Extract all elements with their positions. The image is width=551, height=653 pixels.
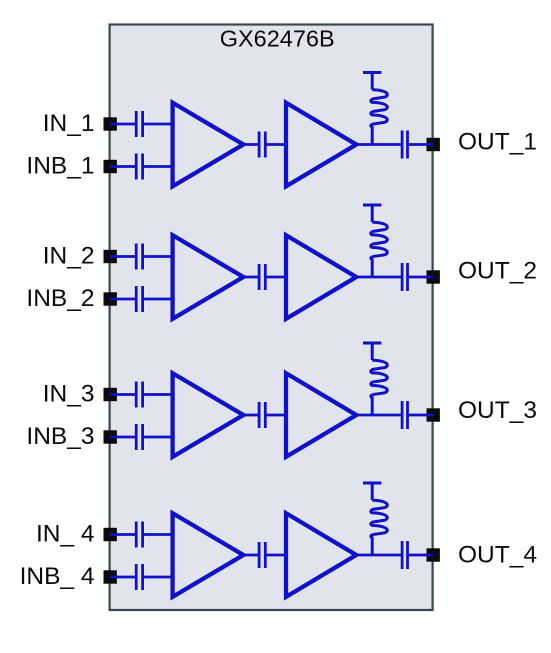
wire capacitor to amplifier A1a input + bbox=[143, 123, 175, 126]
label pin IN_2 bbox=[43, 243, 95, 270]
supply terminal (channel 4 choke feed) bbox=[363, 483, 381, 500]
inductor L2 (RF choke) bbox=[371, 222, 388, 277]
amplifier A2b (second stage) bbox=[286, 235, 356, 319]
wire interstage capacitor to amplifier A1b bbox=[265, 143, 288, 146]
capacitor interstage coupling (channel 1) bbox=[259, 132, 265, 158]
wire output capacitor to OUT_2 pad bbox=[408, 276, 434, 279]
capacitor input coupling (IN_1) bbox=[136, 111, 142, 137]
inductor L1 (RF choke) bbox=[371, 90, 388, 145]
label pin OUT_4 bbox=[458, 541, 537, 568]
wire amplifier A2a output to interstage capacitor bbox=[242, 276, 259, 279]
svg-text:OUT_2: OUT_2 bbox=[458, 257, 537, 284]
pin pad INB_2 bbox=[104, 292, 117, 305]
wire capacitor to amplifier A4a input + bbox=[143, 533, 175, 536]
wire output capacitor to OUT_4 pad bbox=[408, 554, 434, 557]
capacitor input coupling (INB_1) bbox=[136, 154, 142, 180]
pin pad OUT_2 bbox=[427, 270, 440, 283]
amplifier A3b (second stage) bbox=[286, 373, 356, 457]
svg-text:OUT_1: OUT_1 bbox=[458, 129, 537, 156]
label pin OUT_3 bbox=[458, 397, 537, 424]
capacitor interstage coupling (channel 4) bbox=[259, 542, 265, 568]
wire output capacitor to OUT_3 pad bbox=[408, 414, 434, 417]
amplifier A1b (second stage) bbox=[286, 103, 356, 187]
wire amplifier A1a output to interstage capacitor bbox=[242, 143, 259, 146]
capacitor output coupling (OUT_2) bbox=[402, 263, 407, 291]
capacitor input coupling (IN_2) bbox=[136, 244, 142, 270]
wire INB_4 pad to coupling capacitor bbox=[110, 576, 136, 579]
wire IN_1 pad to coupling capacitor bbox=[110, 123, 136, 126]
capacitor output coupling (OUT_3) bbox=[402, 401, 407, 429]
wire capacitor to amplifier A3a input + bbox=[143, 393, 175, 396]
wire interstage capacitor to amplifier A3b bbox=[265, 414, 288, 417]
label pin OUT_2 bbox=[458, 257, 537, 284]
pin pad INB_4 bbox=[104, 570, 117, 583]
wire amplifier A2b output to output capacitor (node with choke) bbox=[355, 276, 402, 279]
svg-text:IN_2: IN_2 bbox=[43, 243, 95, 270]
label pin IN_4 bbox=[36, 521, 95, 548]
label part number GX62476B bbox=[220, 26, 335, 52]
label pin INB_3 bbox=[26, 423, 94, 450]
wire INB_2 pad to coupling capacitor bbox=[110, 298, 136, 301]
capacitor input coupling (IN_4) bbox=[136, 522, 142, 548]
wire amplifier A3a output to interstage capacitor bbox=[242, 414, 259, 417]
amplifier A2a (first stage) bbox=[173, 235, 244, 319]
wire capacitor to amplifier A3a input - bbox=[143, 436, 175, 439]
amplifier A4b (second stage) bbox=[286, 513, 356, 597]
wire amplifier A1b output to output capacitor (node with choke) bbox=[355, 143, 402, 146]
wire amplifier A4b output to output capacitor (node with choke) bbox=[355, 554, 402, 557]
capacitor input coupling (INB_3) bbox=[136, 424, 142, 450]
label pin INB_1 bbox=[26, 153, 94, 180]
IC body GX62476B bbox=[110, 25, 433, 611]
wire INB_1 pad to coupling capacitor bbox=[110, 165, 136, 168]
capacitor input coupling (INB_4) bbox=[136, 564, 142, 590]
wire IN_3 pad to coupling capacitor bbox=[110, 393, 136, 396]
supply terminal (channel 2 choke feed) bbox=[363, 205, 381, 222]
capacitor output coupling (OUT_4) bbox=[402, 541, 407, 569]
svg-text:INB_2: INB_2 bbox=[26, 285, 94, 312]
pin pad INB_3 bbox=[104, 430, 117, 443]
svg-text:IN_ 4: IN_ 4 bbox=[36, 521, 95, 548]
svg-text:IN_3: IN_3 bbox=[43, 381, 95, 408]
label pin INB_2 bbox=[26, 285, 94, 312]
amplifier A4a (first stage) bbox=[173, 513, 244, 597]
wire output capacitor to OUT_1 pad bbox=[408, 143, 434, 146]
wire capacitor to amplifier A2a input - bbox=[143, 298, 175, 301]
amplifier A3a (first stage) bbox=[173, 373, 244, 457]
svg-text:OUT_3: OUT_3 bbox=[458, 397, 537, 424]
wire IN_2 pad to coupling capacitor bbox=[110, 255, 136, 258]
inductor L3 (RF choke) bbox=[371, 360, 388, 415]
pin pad IN_3 bbox=[104, 388, 117, 401]
pin pad OUT_3 bbox=[427, 408, 440, 421]
svg-text:GX62476B: GX62476B bbox=[220, 26, 335, 52]
wire interstage capacitor to amplifier A4b bbox=[265, 554, 288, 557]
capacitor output coupling (OUT_1) bbox=[402, 131, 407, 159]
supply terminal (channel 1 choke feed) bbox=[363, 73, 381, 90]
pin pad IN_4 bbox=[104, 528, 117, 541]
wire INB_3 pad to coupling capacitor bbox=[110, 436, 136, 439]
capacitor input coupling (INB_2) bbox=[136, 286, 142, 312]
wire IN_4 pad to coupling capacitor bbox=[110, 533, 136, 536]
wire capacitor to amplifier A1a input - bbox=[143, 165, 175, 168]
wire interstage capacitor to amplifier A2b bbox=[265, 276, 288, 279]
svg-text:OUT_4: OUT_4 bbox=[458, 541, 537, 568]
pin pad OUT_1 bbox=[427, 138, 440, 151]
capacitor interstage coupling (channel 3) bbox=[259, 402, 265, 428]
svg-text:INB_ 4: INB_ 4 bbox=[20, 563, 95, 590]
capacitor interstage coupling (channel 2) bbox=[259, 264, 265, 290]
label pin IN_3 bbox=[43, 381, 95, 408]
label pin IN_1 bbox=[43, 110, 95, 137]
supply terminal (channel 3 choke feed) bbox=[363, 343, 381, 360]
label pin INB_4 bbox=[20, 563, 95, 590]
amplifier A1a (first stage) bbox=[173, 103, 244, 187]
label pin OUT_1 bbox=[458, 129, 537, 156]
wire amplifier A3b output to output capacitor (node with choke) bbox=[355, 414, 402, 417]
capacitor input coupling (IN_3) bbox=[136, 382, 142, 408]
pin pad IN_2 bbox=[104, 250, 117, 263]
inductor L4 (RF choke) bbox=[371, 500, 388, 555]
svg-text:IN_1: IN_1 bbox=[43, 110, 95, 137]
pin pad IN_1 bbox=[104, 117, 117, 130]
pin pad OUT_4 bbox=[427, 548, 440, 561]
pin pad INB_1 bbox=[104, 160, 117, 173]
wire capacitor to amplifier A4a input - bbox=[143, 576, 175, 579]
svg-text:INB_3: INB_3 bbox=[26, 423, 94, 450]
wire capacitor to amplifier A2a input + bbox=[143, 255, 175, 258]
svg-text:INB_1: INB_1 bbox=[26, 153, 94, 180]
wire amplifier A4a output to interstage capacitor bbox=[242, 554, 259, 557]
